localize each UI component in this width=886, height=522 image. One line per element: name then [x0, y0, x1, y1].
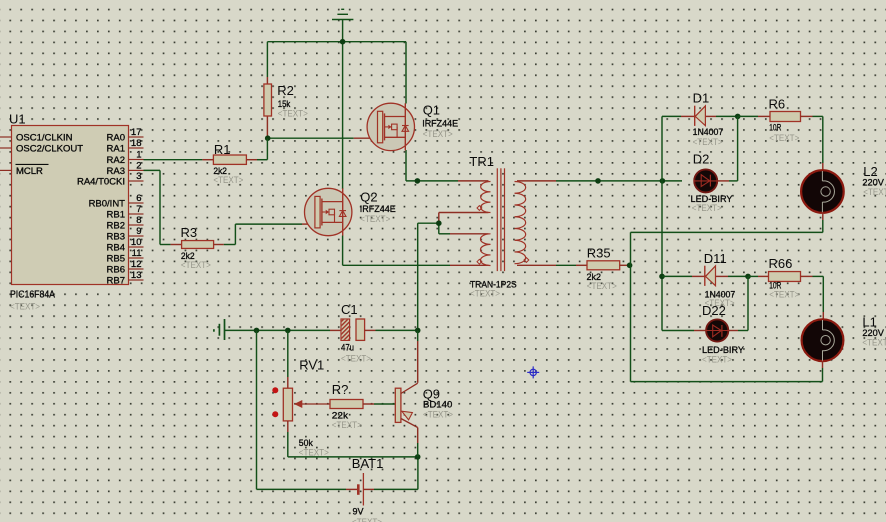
- svg-text:OSC1/CLKIN: OSC1/CLKIN: [16, 133, 73, 144]
- svg-text:RB7: RB7: [107, 276, 125, 287]
- svg-text:OSC2/CLKOUT: OSC2/CLKOUT: [16, 144, 83, 155]
- svg-text:12: 12: [131, 259, 142, 270]
- svg-text:R6: R6: [769, 97, 786, 112]
- svg-text:<TEXT>: <TEXT>: [862, 338, 886, 349]
- svg-text:D2: D2: [693, 152, 710, 167]
- svg-text:D1: D1: [693, 91, 710, 106]
- svg-text:C1: C1: [341, 302, 358, 317]
- svg-text:D11: D11: [704, 251, 727, 266]
- svg-text:<TEXT>: <TEXT>: [587, 281, 617, 292]
- svg-text:MCLR: MCLR: [16, 166, 43, 177]
- svg-text:RB5: RB5: [107, 254, 125, 265]
- svg-text:<TEXT>: <TEXT>: [423, 410, 453, 421]
- svg-text:R1: R1: [214, 142, 231, 157]
- svg-text:<TEXT>: <TEXT>: [423, 129, 453, 140]
- svg-text:<TEXT>: <TEXT>: [352, 517, 382, 522]
- svg-text:Q1: Q1: [423, 103, 440, 118]
- svg-text:6: 6: [136, 193, 141, 204]
- svg-text:11: 11: [132, 248, 142, 259]
- svg-text:<TEXT>: <TEXT>: [299, 448, 329, 459]
- svg-text:17: 17: [131, 127, 142, 138]
- svg-text:<TEXT>: <TEXT>: [360, 214, 390, 225]
- svg-text:R35: R35: [587, 245, 611, 260]
- svg-text:IRFZ44E: IRFZ44E: [422, 119, 458, 130]
- svg-text:RB0/INT: RB0/INT: [89, 199, 126, 210]
- svg-text:8: 8: [136, 215, 141, 226]
- svg-text:R?: R?: [332, 382, 349, 397]
- svg-text:RA0: RA0: [107, 133, 125, 144]
- svg-text:R66: R66: [769, 256, 793, 271]
- svg-text:<TEXT>: <TEXT>: [702, 355, 732, 366]
- svg-text:R2: R2: [277, 83, 294, 98]
- svg-text:TR1: TR1: [469, 154, 494, 169]
- svg-text:RB1: RB1: [107, 210, 125, 221]
- svg-text:RA1: RA1: [107, 144, 125, 155]
- svg-text:13: 13: [131, 270, 142, 281]
- svg-text:9: 9: [136, 226, 141, 237]
- svg-text:<TEXT>: <TEXT>: [769, 290, 799, 301]
- svg-text:RB6: RB6: [107, 265, 125, 276]
- svg-text:<TEXT>: <TEXT>: [470, 289, 500, 300]
- svg-text:RA2: RA2: [107, 155, 125, 166]
- svg-text:<TEXT>: <TEXT>: [10, 302, 40, 313]
- svg-text:<TEXT>: <TEXT>: [692, 203, 722, 214]
- svg-text:18: 18: [131, 138, 142, 149]
- svg-text:<TEXT>: <TEXT>: [769, 133, 799, 144]
- svg-text:RA3: RA3: [107, 166, 125, 177]
- svg-text:RB2: RB2: [107, 221, 125, 232]
- svg-text:1: 1: [136, 150, 141, 161]
- svg-text:RA4/T0CKI: RA4/T0CKI: [77, 177, 125, 188]
- svg-text:RB4: RB4: [107, 243, 125, 254]
- svg-text:2: 2: [136, 161, 141, 172]
- svg-text:RB3: RB3: [107, 232, 125, 243]
- svg-text:Q2: Q2: [360, 190, 377, 205]
- svg-text:10: 10: [131, 237, 142, 248]
- svg-text:U1: U1: [9, 112, 26, 127]
- svg-text:RV1: RV1: [299, 358, 324, 373]
- svg-text:PIC16F84A: PIC16F84A: [10, 290, 55, 301]
- svg-text:9V: 9V: [353, 507, 365, 518]
- svg-text:<TEXT>: <TEXT>: [278, 109, 308, 120]
- svg-text:BAT1: BAT1: [352, 456, 384, 471]
- svg-text:7: 7: [136, 204, 141, 215]
- svg-text:<TEXT>: <TEXT>: [332, 420, 362, 431]
- svg-text:<TEXT>: <TEXT>: [863, 187, 886, 198]
- svg-text:<TEXT>: <TEXT>: [181, 260, 211, 271]
- svg-text:3: 3: [136, 171, 141, 182]
- svg-text:R3: R3: [181, 225, 198, 240]
- svg-text:10R: 10R: [769, 122, 781, 133]
- svg-text:<TEXT>: <TEXT>: [213, 175, 243, 186]
- svg-text:D22: D22: [702, 303, 726, 318]
- svg-text:<TEXT>: <TEXT>: [693, 137, 723, 148]
- svg-text:47u: 47u: [341, 343, 354, 354]
- svg-text:<TEXT>: <TEXT>: [341, 354, 371, 365]
